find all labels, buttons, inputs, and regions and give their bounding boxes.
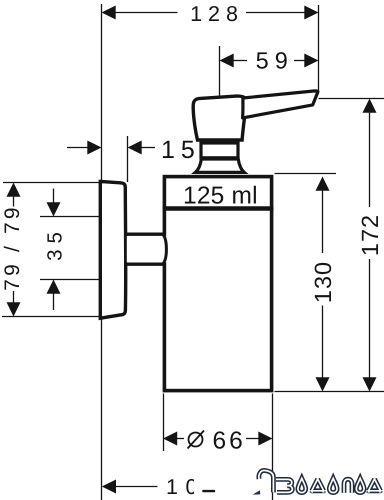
letter a drop (356, 478, 364, 492)
extension line plate edge (127, 136, 129, 182)
watermark splash mark (253, 490, 261, 494)
svg-text:59: 59 (256, 47, 294, 73)
dimension Ø66 (163, 432, 273, 446)
svg-text:125 ml: 125 ml (183, 183, 258, 210)
extension line bottle top right (275, 173, 337, 175)
svg-text:66: 66 (213, 427, 246, 454)
letter V hook (259, 470, 274, 492)
svg-text:79 / 79: 79 / 79 (1, 204, 24, 291)
letter o drop (298, 478, 306, 492)
letter o drop (329, 478, 337, 492)
holder arm (127, 236, 167, 262)
letter p arch (344, 479, 352, 493)
bottle (164, 177, 271, 391)
svg-text:15: 15 (161, 136, 201, 164)
wall plate (100, 181, 125, 318)
extension line right (lever tip) (318, 5, 320, 92)
letter V bowl (276, 479, 292, 492)
dimension 35 (40, 216, 99, 218)
watermark outline strokes (259, 470, 382, 492)
dimension 100 (bottom, partly hidden) (102, 480, 158, 494)
holder ring cap (163, 234, 167, 264)
dimension 59 (220, 54, 319, 68)
dimension 128 (102, 6, 319, 20)
extension lines bottle bottom (163, 394, 165, 452)
letter d triangle (368, 479, 382, 493)
whiteout of watermark (194, 468, 262, 497)
svg-text:130: 130 (310, 261, 336, 303)
extension line lever top right (319, 98, 384, 100)
pump skirt (195, 159, 244, 172)
pump head (193, 96, 246, 140)
svg-text:172: 172 (357, 214, 383, 256)
pump neck ring (201, 143, 238, 158)
dimension 15 (67, 141, 155, 155)
dimension 172 (363, 99, 377, 392)
dimension 130 (316, 177, 330, 392)
letter d triangle (311, 479, 325, 493)
wall line (101, 4, 103, 500)
bottle label band line (163, 206, 274, 210)
svg-text:128: 128 (190, 2, 244, 26)
extension line pump center (219, 46, 221, 97)
dimension 79/79 (3, 182, 101, 184)
svg-text:35: 35 (44, 226, 67, 261)
remnant bottom arc of hidden digit (202, 490, 215, 492)
extension line bottom right (275, 391, 384, 393)
pump lever (243, 91, 318, 118)
watermark logo (259, 470, 382, 492)
